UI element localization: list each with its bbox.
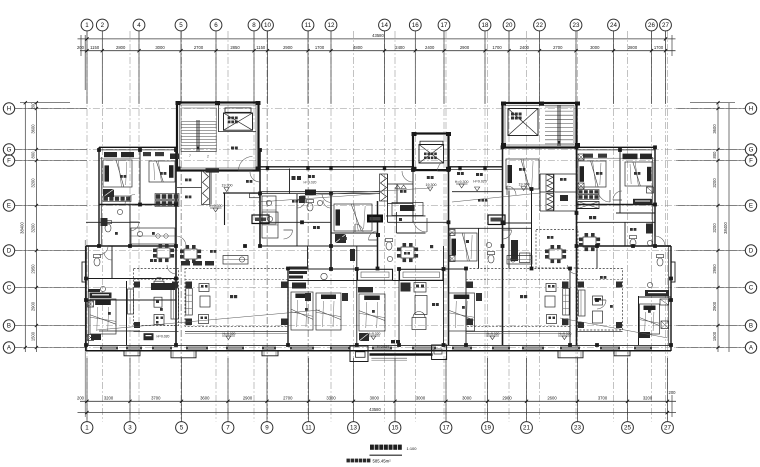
- wall: [86, 221, 140, 223]
- svg-text:15: 15: [392, 425, 399, 432]
- central elevator door sill: [420, 141, 443, 144]
- central hall label + level mark: [457, 172, 460, 175]
- svg-text:3600: 3600: [200, 395, 210, 400]
- svg-text:3200: 3200: [31, 178, 36, 188]
- wardrobe: [359, 333, 369, 341]
- svg-text:27: 27: [662, 22, 669, 29]
- wall: [356, 246, 358, 345]
- svg-text:H=9.020: H=9.020: [304, 180, 317, 184]
- study room column: [401, 283, 411, 292]
- svg-text:23: 23: [574, 425, 581, 432]
- svg-text:2900: 2900: [460, 45, 470, 50]
- svg-text:2900: 2900: [502, 395, 512, 400]
- outer wall: right wing top: [577, 146, 656, 148]
- svg-text:7: 7: [189, 154, 191, 158]
- basin: [486, 242, 491, 247]
- svg-text:23: 23: [573, 22, 580, 29]
- svg-text:17: 17: [441, 22, 448, 29]
- basin: [647, 240, 652, 245]
- door swing: [438, 160, 449, 171]
- toilet: [657, 258, 663, 266]
- central elevator label: [424, 153, 427, 156]
- wall: [577, 221, 656, 223]
- window boxes + labels, left wing top: [104, 152, 117, 157]
- svg-text:E: E: [7, 203, 11, 210]
- title: 31st floor plan 1:100: [370, 445, 402, 450]
- door swing: [176, 236, 186, 246]
- basin: [317, 200, 322, 205]
- closet band: [155, 201, 179, 207]
- svg-text:2700: 2700: [283, 395, 293, 400]
- basin: [100, 286, 105, 291]
- svg-text:2400: 2400: [425, 45, 435, 50]
- wall: [260, 191, 380, 193]
- wall: [260, 193, 380, 195]
- svg-text:2950: 2950: [31, 264, 36, 274]
- bed: [291, 292, 313, 330]
- wardrobe: [335, 234, 346, 243]
- svg-text:24: 24: [610, 22, 617, 29]
- right letter bubbles + dimension chains: [745, 103, 756, 114]
- svg-text:1700: 1700: [315, 45, 325, 50]
- bottom overall dimension line 43580: [78, 412, 677, 414]
- wall: [452, 191, 503, 193]
- wall: [576, 147, 578, 345]
- closet band: [578, 195, 599, 200]
- washer: [321, 273, 327, 279]
- wall: [175, 150, 177, 345]
- center canopy slab: [370, 353, 433, 356]
- svg-text:1500: 1500: [712, 331, 717, 341]
- svg-text:1150: 1150: [90, 45, 100, 50]
- wall: [398, 269, 400, 345]
- svg-text:200: 200: [77, 45, 85, 50]
- door swing: [402, 171, 413, 182]
- wall: [577, 204, 656, 206]
- svg-text:3700: 3700: [151, 395, 161, 400]
- svg-text:200: 200: [77, 395, 85, 400]
- svg-text:G: G: [749, 147, 754, 154]
- wall: [596, 246, 598, 269]
- basin: [647, 282, 652, 287]
- door swing: [568, 265, 577, 274]
- closet band: [578, 190, 599, 195]
- wall: [129, 205, 131, 247]
- svg-text:12: 12: [328, 22, 335, 29]
- wall: [465, 269, 467, 346]
- svg-text:11: 11: [305, 425, 312, 432]
- svg-text:3000: 3000: [590, 45, 600, 50]
- left letter bubbles + dimension chains: [3, 103, 14, 114]
- svg-text:1: 1: [85, 22, 89, 29]
- right elevator (X-box): [508, 109, 538, 136]
- wall: [86, 299, 176, 301]
- duct shaft: [546, 194, 554, 211]
- svg-text:2400: 2400: [520, 45, 530, 50]
- basin: [266, 200, 271, 205]
- outer wall: left step: [86, 245, 99, 247]
- svg-text:D: D: [749, 248, 754, 255]
- wall: [503, 222, 532, 224]
- wall: [540, 210, 577, 212]
- svg-text:20: 20: [506, 22, 513, 29]
- svg-text:H: H: [749, 106, 753, 113]
- wall: [624, 222, 626, 246]
- door swing: [507, 186, 516, 195]
- svg-text:13: 13: [350, 425, 357, 432]
- door swing: [655, 236, 665, 246]
- svg-text:2900: 2900: [712, 301, 717, 311]
- svg-text:2: 2: [101, 22, 105, 29]
- svg-text:H=0.020: H=0.020: [157, 334, 170, 338]
- wall: [260, 245, 331, 247]
- svg-text:21: 21: [523, 425, 530, 432]
- top interval dimension line: [80, 50, 676, 52]
- left unit dotted living room: [134, 269, 179, 326]
- left elevator door sill: [225, 108, 251, 112]
- wall: [448, 170, 450, 345]
- wall: [388, 221, 449, 223]
- duct shaft: [202, 171, 210, 205]
- svg-text:16: 16: [412, 22, 419, 29]
- wall: [478, 228, 480, 268]
- right unit dotted living room: [578, 269, 623, 331]
- bed: [450, 233, 477, 261]
- door swing: [613, 191, 622, 200]
- bed: [359, 294, 385, 331]
- wall: [388, 183, 414, 185]
- left stair flight: [181, 108, 217, 152]
- svg-text:8: 8: [252, 22, 256, 29]
- wall: [288, 268, 357, 270]
- svg-text:1150: 1150: [256, 45, 266, 50]
- svg-text:4800: 4800: [353, 45, 363, 50]
- svg-text:3700: 3700: [598, 395, 608, 400]
- toilet: [630, 239, 636, 247]
- wall: [553, 174, 555, 211]
- outer wall: right step: [655, 245, 671, 247]
- bed: [149, 161, 175, 182]
- outer wall: left wing top: [99, 146, 176, 148]
- wall: [502, 147, 504, 345]
- svg-text:43580: 43580: [372, 33, 384, 38]
- svg-text:5: 5: [179, 22, 183, 29]
- svg-text:H=9.020: H=9.020: [223, 332, 236, 336]
- svg-text:2950: 2950: [712, 264, 717, 274]
- svg-text:2700: 2700: [194, 45, 204, 50]
- basin: [387, 256, 392, 261]
- svg-text:800: 800: [31, 151, 36, 159]
- top grid bubbles: [81, 19, 93, 31]
- wall: [412, 170, 414, 222]
- wall: [577, 245, 671, 247]
- svg-text:27: 27: [664, 425, 671, 432]
- wall: [531, 189, 533, 269]
- FM tag box: [488, 215, 505, 225]
- svg-text:H=9.020: H=9.020: [368, 332, 381, 336]
- dashed living room 2: [466, 269, 570, 327]
- svg-text:3200: 3200: [104, 395, 114, 400]
- svg-text:10: 10: [264, 22, 271, 29]
- svg-text:2850: 2850: [230, 45, 240, 50]
- svg-text:H=9.020: H=9.020: [559, 332, 572, 336]
- wall: [377, 201, 379, 269]
- door swing: [322, 194, 331, 203]
- left stair/elevator tower shell: [177, 103, 259, 171]
- window tag left of tower: [170, 154, 179, 160]
- closet band: [155, 194, 179, 200]
- dining table: [549, 249, 562, 259]
- duct shaft: [380, 174, 388, 201]
- svg-text:2900: 2900: [243, 395, 253, 400]
- svg-text:3000: 3000: [462, 395, 472, 400]
- wall: [619, 150, 621, 213]
- wall: [539, 174, 541, 211]
- svg-text:19.300: 19.300: [222, 184, 233, 188]
- svg-text:14: 14: [381, 22, 388, 29]
- svg-text:19: 19: [484, 425, 491, 432]
- svg-text:2600: 2600: [547, 395, 557, 400]
- center kitchen strip: [392, 203, 423, 216]
- dark text rows: [289, 267, 307, 270]
- wall: [508, 191, 510, 269]
- door swing: [125, 195, 135, 205]
- dining table: [583, 237, 596, 247]
- svg-text:7: 7: [226, 425, 230, 432]
- door swing: [597, 300, 606, 309]
- bed: [334, 204, 372, 231]
- wall: [331, 232, 378, 234]
- leader lines: [97, 310, 320, 330]
- wall: [540, 173, 577, 175]
- bed: [449, 293, 475, 331]
- door swing: [130, 222, 139, 231]
- kitchen counters top strip: [223, 256, 248, 265]
- sliding closet bars: [358, 269, 393, 280]
- wall: [330, 194, 332, 270]
- svg-text:E: E: [749, 203, 753, 210]
- door swing: [167, 265, 176, 274]
- svg-text:1700: 1700: [492, 45, 502, 50]
- svg-text:9: 9: [265, 425, 269, 432]
- basin: [510, 257, 515, 262]
- svg-text:1700: 1700: [654, 45, 664, 50]
- svg-text:1: 1: [85, 425, 89, 432]
- toilet: [488, 255, 494, 263]
- wall: [259, 150, 261, 246]
- wall: [444, 268, 467, 270]
- svg-text:3000: 3000: [155, 45, 165, 50]
- svg-text:3: 3: [128, 425, 132, 432]
- svg-text:3000: 3000: [416, 395, 426, 400]
- door swing: [413, 218, 427, 232]
- svg-text:G: G: [7, 147, 12, 154]
- svg-text:B: B: [749, 323, 753, 330]
- wall: [210, 171, 212, 205]
- sofa: [186, 289, 193, 316]
- right stair flight: [545, 106, 573, 108]
- basin: [267, 216, 272, 221]
- corridor top wall right span: [449, 166, 503, 168]
- right stair/elevator tower shell: [503, 103, 577, 148]
- wall: [393, 280, 444, 282]
- svg-text:H=9.300: H=9.300: [455, 180, 469, 184]
- wall: [449, 227, 532, 229]
- wall: [139, 150, 141, 205]
- bed: [640, 304, 660, 334]
- closet strip: [126, 281, 128, 345]
- bed: [90, 299, 116, 334]
- svg-text:200: 200: [669, 390, 677, 395]
- bottom facade windows: [100, 347, 118, 350]
- door swing: [598, 190, 610, 202]
- corridor top wall left span: [260, 166, 413, 168]
- wall: [99, 204, 176, 206]
- wall: [86, 245, 176, 247]
- svg-text:H: H: [7, 106, 11, 113]
- svg-text:3200: 3200: [712, 223, 717, 233]
- svg-text:1500: 1500: [31, 331, 36, 341]
- wall: [296, 194, 298, 247]
- svg-text:43580: 43580: [369, 407, 381, 412]
- svg-text:2800: 2800: [628, 45, 638, 50]
- svg-text:3300: 3300: [326, 395, 336, 400]
- bed: [578, 161, 606, 187]
- dining table: [157, 248, 170, 258]
- svg-text:H=9.020: H=9.020: [473, 179, 486, 183]
- svg-text:D: D: [7, 248, 12, 255]
- bed: [625, 162, 653, 186]
- door swing: [355, 224, 363, 232]
- BUILDING: [86, 101, 671, 351]
- wall: [260, 221, 331, 223]
- svg-text:26: 26: [648, 22, 655, 29]
- door swing: [104, 252, 112, 260]
- wall: [569, 269, 571, 346]
- svg-text:H-0.024: H-0.024: [377, 345, 389, 349]
- wall: [639, 296, 672, 298]
- sofa left unit: [171, 288, 179, 319]
- svg-text:2: 2: [207, 155, 209, 159]
- svg-text:2700: 2700: [553, 45, 563, 50]
- svg-text:11: 11: [305, 22, 312, 29]
- door swing: [369, 231, 378, 240]
- bottom interval dimension line: [80, 400, 676, 402]
- svg-text:6: 6: [214, 22, 218, 29]
- left elevator label: [228, 117, 231, 120]
- wall: [331, 245, 378, 247]
- toilet: [307, 203, 313, 211]
- outer wall: right upper side: [654, 147, 656, 246]
- svg-text:585.45m²: 585.45m²: [373, 459, 392, 464]
- level arrows bottom: [226, 336, 231, 340]
- laundry column: [511, 240, 518, 261]
- bottom grid bubbles: [81, 422, 93, 434]
- svg-text:3000: 3000: [370, 395, 380, 400]
- wall: [99, 330, 140, 332]
- svg-text:C: C: [749, 285, 754, 292]
- left tower waiting hall: [218, 131, 256, 133]
- wall: [288, 280, 357, 282]
- duct shaft: [546, 175, 554, 192]
- svg-text:3200: 3200: [643, 395, 653, 400]
- left unit kitchen/bath fixtures: [111, 246, 113, 279]
- door swing: [250, 172, 260, 182]
- svg-text:18: 18: [482, 22, 489, 29]
- wall: [307, 246, 309, 269]
- wall: [540, 191, 577, 193]
- svg-text:38400: 38400: [20, 222, 25, 234]
- svg-text:19.300: 19.300: [519, 183, 530, 187]
- sofa right unit: [579, 290, 586, 316]
- toilet: [105, 224, 111, 232]
- dining table: [401, 247, 414, 258]
- svg-text:C: C: [7, 285, 12, 292]
- central elevator X-box: [419, 145, 444, 164]
- bed: [103, 160, 132, 187]
- dotted dining nook + table: [536, 230, 578, 269]
- outer wall: right lower side: [670, 246, 672, 351]
- closet band: [103, 196, 131, 202]
- svg-text:3200: 3200: [712, 178, 717, 188]
- toilet: [386, 242, 392, 250]
- svg-text:800: 800: [712, 151, 717, 159]
- wall: [86, 278, 176, 280]
- svg-text:B: B: [7, 323, 11, 330]
- basin: [117, 209, 122, 214]
- wall: [443, 246, 445, 345]
- svg-text:200: 200: [31, 102, 36, 110]
- svg-text:2900: 2900: [283, 45, 293, 50]
- left bay window: [82, 262, 86, 282]
- wall: [387, 174, 389, 222]
- door swing: [297, 200, 305, 208]
- toilet: [94, 258, 100, 266]
- top overall dimension line 43580: [78, 38, 676, 40]
- central elevator shaft shell: [413, 134, 449, 171]
- svg-text:F: F: [749, 158, 753, 165]
- svg-text:22: 22: [536, 22, 543, 29]
- bed: [316, 293, 341, 330]
- svg-text:38400: 38400: [723, 222, 728, 234]
- svg-text:2900: 2900: [31, 301, 36, 311]
- svg-text:2400: 2400: [395, 45, 405, 50]
- wall: [388, 203, 414, 205]
- bottom balcony bumps: [124, 351, 140, 356]
- sofa: [563, 289, 570, 316]
- center entry porch: [350, 346, 368, 362]
- entry level mark: [144, 333, 154, 340]
- bed: [506, 159, 539, 189]
- outer wall: left upper side: [98, 147, 100, 246]
- balcony rails under dashed rooms: [185, 331, 288, 333]
- door swing: [323, 200, 331, 208]
- wall: [287, 269, 289, 346]
- right unit bedroom: [638, 296, 640, 345]
- W tag box: [252, 215, 269, 224]
- outer wall: left lower side: [85, 246, 87, 351]
- door swing: [503, 230, 512, 239]
- wardrobe: [103, 189, 114, 197]
- horizontal grid axes (dash-dot): [15, 109, 745, 348]
- basin: [137, 231, 142, 236]
- svg-text:2800: 2800: [116, 45, 126, 50]
- outer wall: bottom with inner face: [86, 350, 671, 352]
- door swing: [284, 230, 293, 239]
- door swing: [99, 246, 108, 255]
- svg-text:3200: 3200: [31, 223, 36, 233]
- svg-text:H=9.020: H=9.020: [487, 332, 500, 336]
